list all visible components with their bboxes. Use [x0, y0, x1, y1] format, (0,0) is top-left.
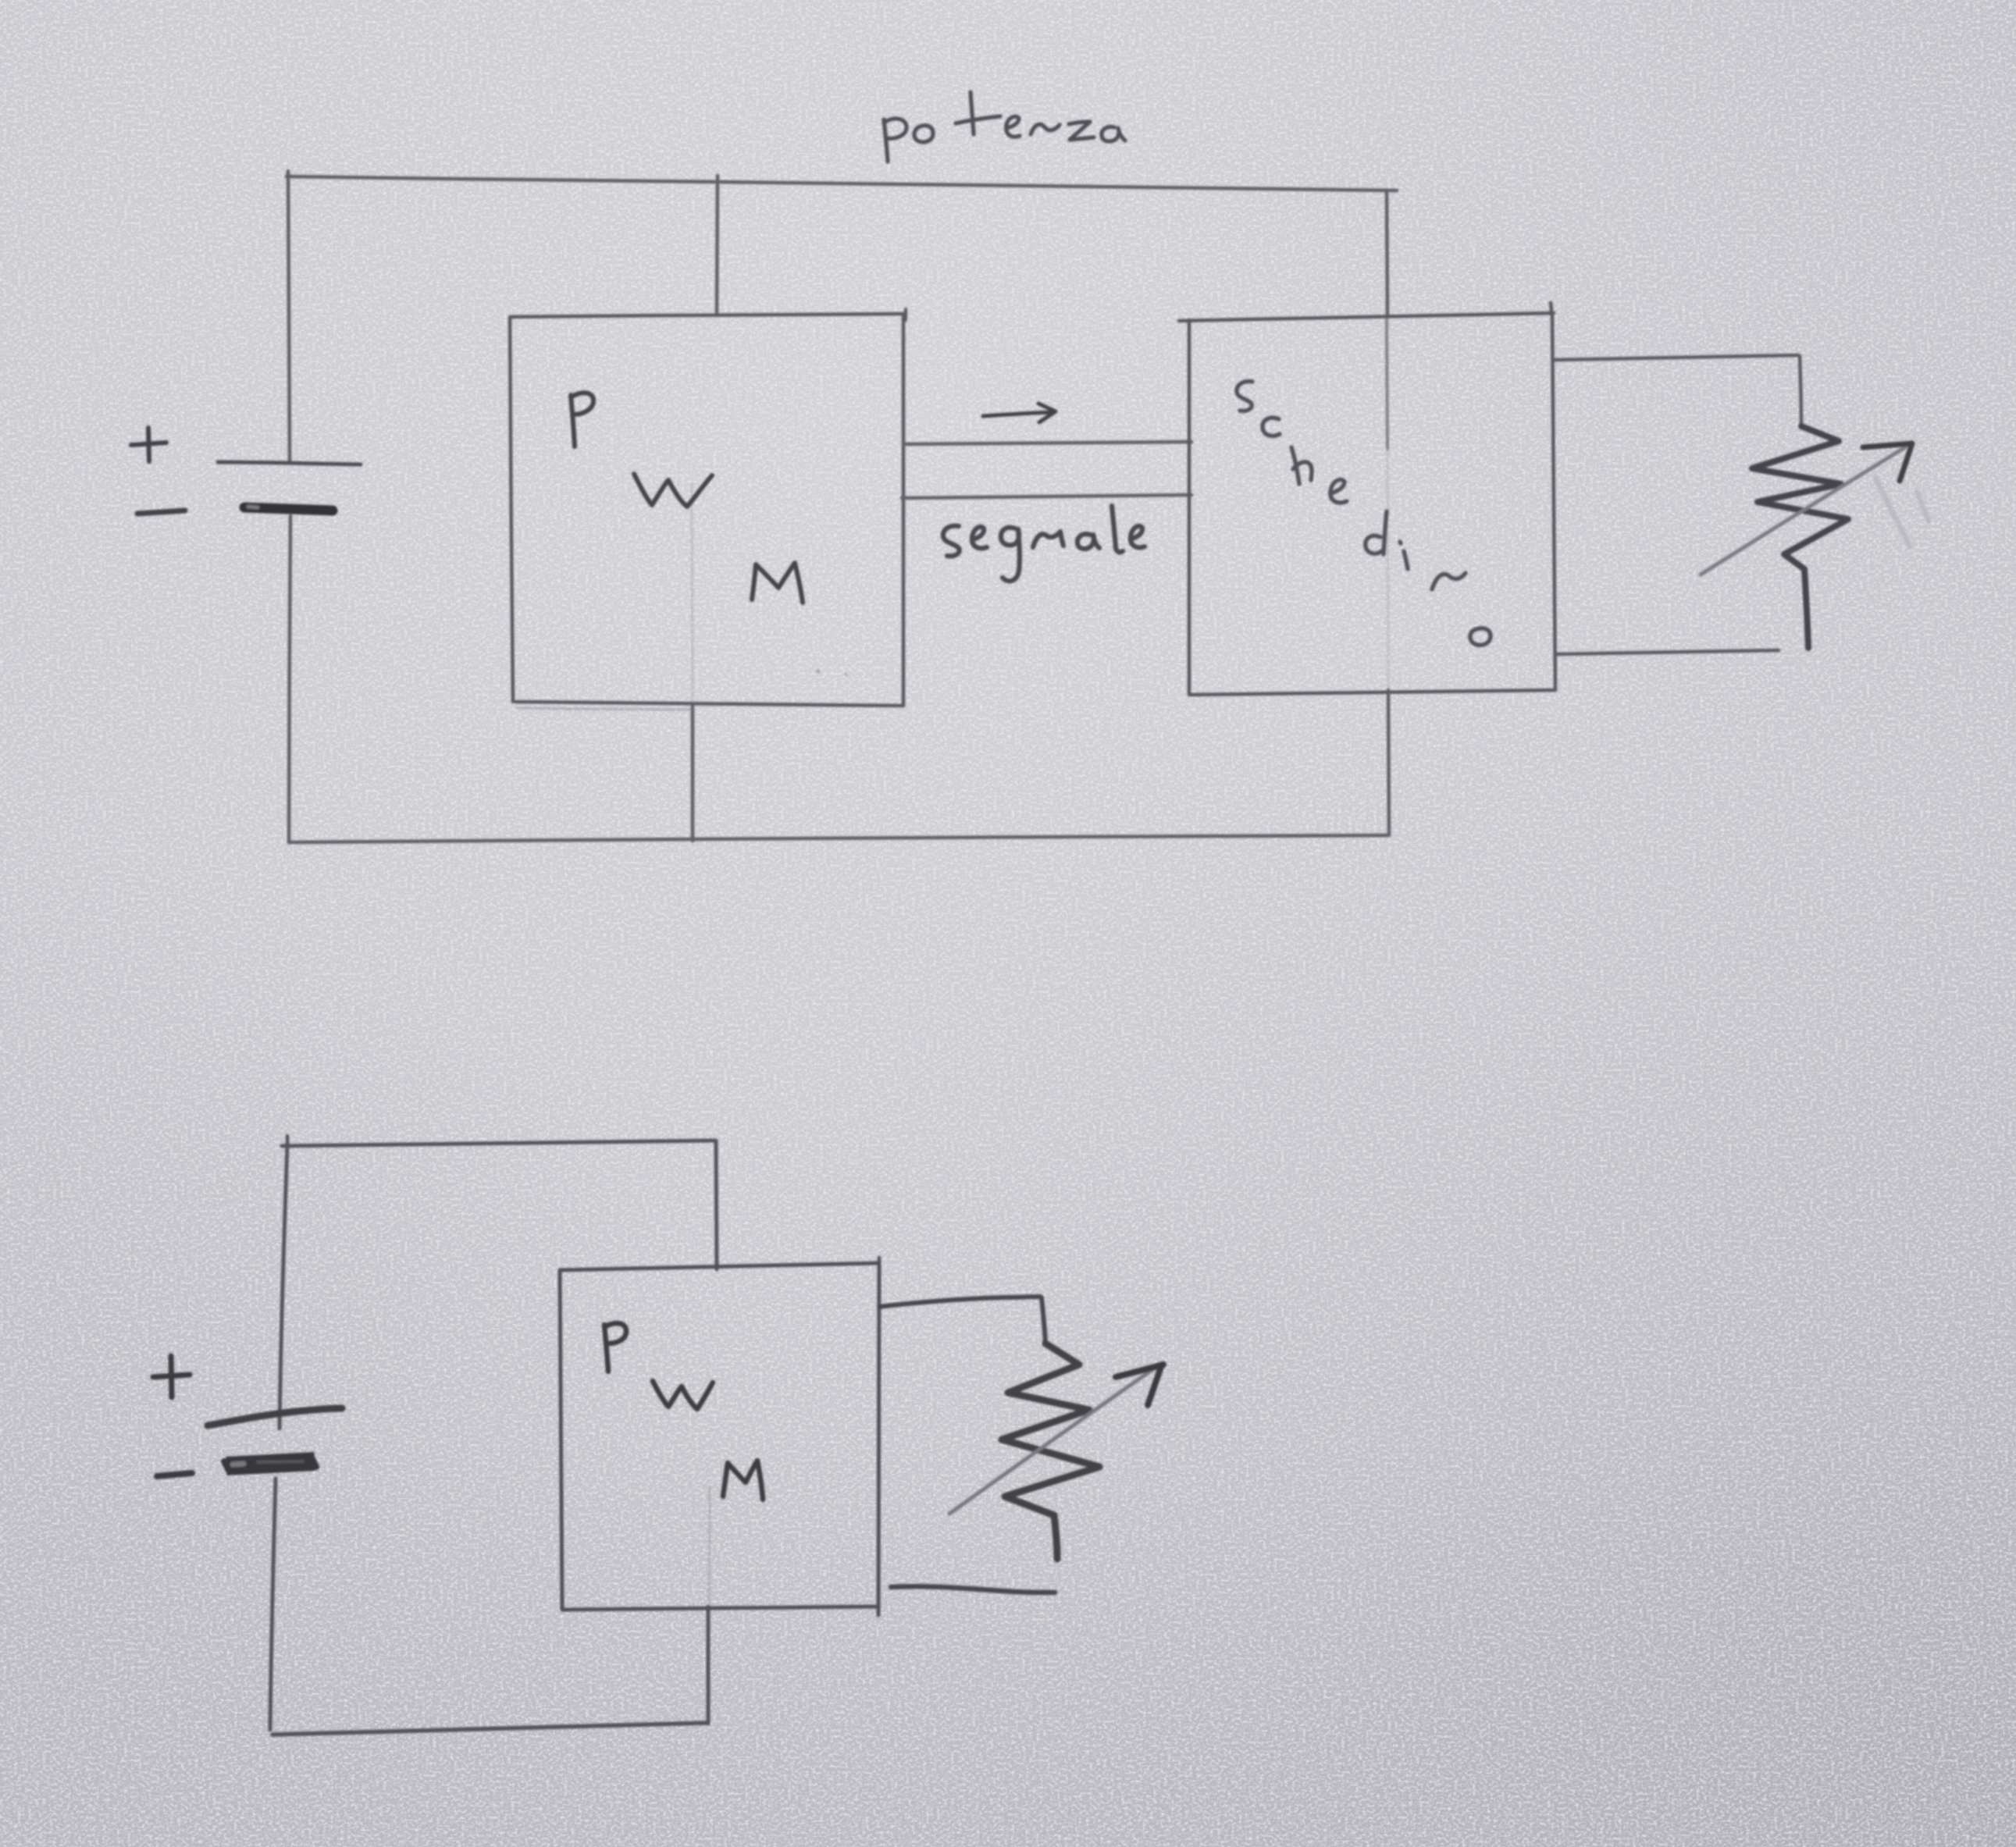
wire: stub from U3 bottom to bottom rail	[707, 1607, 711, 1724]
box U2 "schedino"	[1179, 303, 1555, 695]
label "segnale"	[943, 506, 1145, 581]
wire: U3 lower output	[891, 1586, 1055, 1593]
rheostat RV2 zigzag	[1002, 1343, 1099, 1559]
wire: U3 upper output	[879, 1297, 1040, 1307]
letter P in U3	[604, 1323, 626, 1372]
signal wire upper	[903, 442, 1191, 444]
wire: top rail of bottom circuit	[282, 1141, 715, 1146]
letter W in U3	[653, 1381, 713, 1409]
wire: battery minus down to bottom rail	[289, 516, 290, 842]
wire: battery B2 down to bottom rail	[270, 1479, 276, 1730]
box U1 "PWM"	[510, 314, 906, 706]
wire: stub down to PWM box U3	[716, 1141, 717, 1269]
letter W in U1	[634, 474, 712, 507]
minus sign B1	[137, 511, 185, 514]
wire: schedino bottom stub to bottom rail	[1388, 690, 1389, 835]
ghost eraser marks near RV1	[1875, 478, 1929, 546]
wire: schedino lower output	[1557, 650, 1779, 654]
wire: left vertical from top wire down to battery +	[288, 171, 290, 462]
restroke of U1 bottom edge	[518, 708, 693, 710]
rheostat RV1 arrow	[1701, 447, 1905, 575]
letter M in U1	[752, 563, 803, 603]
battery B2 negative plate (very thick)	[226, 1461, 315, 1466]
wire: left vertical down to battery B2	[280, 1144, 287, 1429]
plus sign B1	[131, 428, 166, 461]
plus sign B2	[153, 1356, 190, 1397]
minus sign B2	[157, 1473, 192, 1476]
wire: top horizontal (potenza net)	[287, 176, 1397, 190]
pencil specks in U1	[817, 670, 821, 674]
wire: bottom rail of top circuit	[289, 835, 1389, 842]
corner tick U3 top-right	[878, 1258, 882, 1269]
letter P in U1	[571, 393, 593, 447]
small arrow over signal	[983, 404, 1056, 422]
corner ticks U1	[904, 309, 907, 320]
signal wire lower	[902, 495, 1191, 498]
faint pencil guide through U1	[692, 484, 693, 701]
rheostat RV1 zigzag	[1752, 426, 1848, 648]
rheostat RV2 arrow	[949, 1367, 1156, 1514]
wire: stub PWM bottom to bottom rail	[691, 706, 695, 841]
wire: right vertical down to schedino top	[1387, 190, 1387, 317]
pencil line through U2 (upper part darker)	[1387, 320, 1387, 449]
wire: bend down to rheostat RV2	[1042, 1297, 1045, 1343]
wire: stub from top wire down to PWM top	[717, 176, 718, 315]
wire: bottom rail of bottom circuit	[272, 1723, 707, 1735]
wire: schedino upper output	[1555, 355, 1798, 360]
label "potenza"	[884, 92, 1125, 162]
wire: bend down to rheostat RV1	[1800, 356, 1801, 426]
battery B1 negative plate (thick)	[244, 507, 333, 511]
box U3 "PWM" (bottom)	[560, 1263, 879, 1615]
battery B1 positive plate	[218, 462, 361, 464]
label "schedino" (diagonal)	[1237, 382, 1491, 646]
faint pencil guide through U3	[709, 1487, 710, 1605]
letter M in U3	[723, 1461, 763, 1500]
battery B2 positive plate (thick, wavy)	[208, 1408, 342, 1425]
